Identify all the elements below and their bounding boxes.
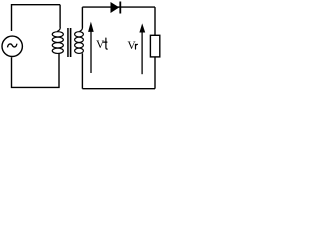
- wire: resistor bottom: [154, 57, 156, 89]
- wire: primary loop top: [12, 5, 61, 31]
- wire: secondary loop top: [82, 6, 155, 8]
- transformer T1 secondary top lead / wire: [81, 7, 83, 28]
- AC source V1: [2, 36, 22, 56]
- transformer T1 secondary bottom lead / wire: [81, 53, 83, 88]
- diode D1 cathode bar: [119, 2, 121, 14]
- AC source tilde: [8, 44, 17, 48]
- voltage arrow Vt head: [88, 22, 94, 32]
- transformer T1 primary lead: [59, 5, 61, 28]
- voltage arrow Vr shaft: [141, 27, 143, 74]
- background: [0, 0, 166, 93]
- transformer T1 primary winding: [52, 27, 63, 53]
- voltage arrow Vt shaft: [90, 26, 92, 73]
- wire: primary loop bottom: [12, 53, 60, 87]
- label Vr letter r: [136, 44, 138, 49]
- transformer core line 1: [67, 28, 69, 57]
- label Vt letter t: [103, 38, 107, 49]
- svg-text:V: V: [96, 39, 105, 51]
- voltage arrow Vr head: [139, 23, 145, 32]
- wire: secondary loop bottom: [82, 88, 155, 90]
- wire: right side down to resistor: [154, 7, 156, 35]
- transformer T1 secondary winding: [75, 27, 84, 53]
- resistor R1 body: [150, 35, 159, 57]
- transformer core line 2: [70, 28, 72, 57]
- diode D1 triangle: [111, 2, 120, 13]
